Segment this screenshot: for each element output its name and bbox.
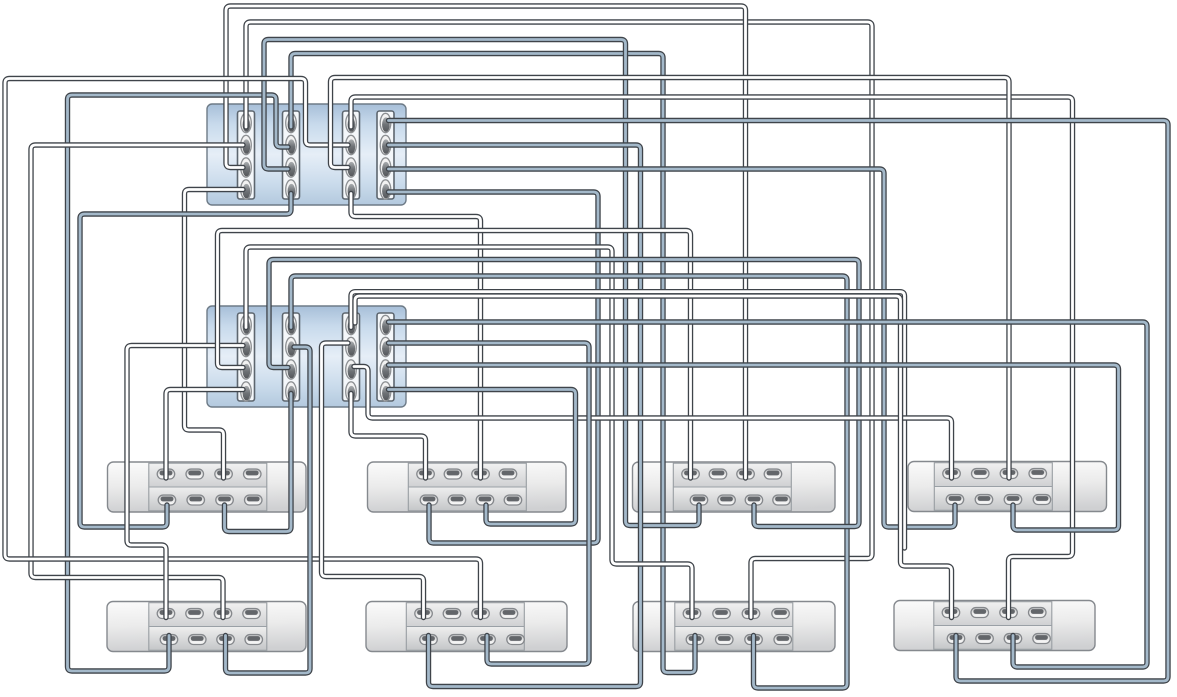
controller C2 HBA2 port 4 (286, 382, 297, 401)
disk shelf B2 IOM1 port 2 (449, 635, 467, 645)
controller C2 HBA3 port 1 (346, 315, 357, 334)
cable C1-s1p4 to A1-t3 (185, 190, 244, 479)
disk shelf B2 IOM1 port 3 (478, 635, 496, 645)
cable C1-s2p3 to A3-b1 (264, 40, 699, 526)
controller C2 HBA3 port 4 (346, 382, 357, 401)
disk shelf A2 chassis (368, 462, 567, 512)
disk shelf A1 IOM0 port 4 (244, 469, 262, 479)
disk shelf A3 IOM0 port 3 (737, 469, 755, 479)
disk shelf A4 IOM0 port 2 (972, 469, 990, 479)
controller C1 HBA2 port 4 (286, 180, 297, 199)
disk shelf B2 IOM0 port 1 (415, 609, 433, 619)
disk shelf B4 IOM0 port 1 (942, 608, 960, 618)
controller C1 HBA slot 4 (377, 111, 394, 199)
disk shelf B2 controller panel (406, 603, 524, 651)
controller C2 HBA4 port 3 (380, 360, 391, 379)
controller C1 HBA slot 2 (283, 111, 300, 199)
cable C1-s2p2 to B1-b1 (68, 95, 289, 671)
disk shelf B1 IOM0 port 2 (186, 609, 204, 619)
controller C1 HBA1 port 4 (241, 180, 252, 199)
disk shelf B4 controller panel (934, 602, 1052, 650)
disk shelf A2 IOM1 port 4 (504, 495, 522, 505)
controller C2 HBA4 port 4 (380, 382, 391, 401)
disk shelf B3 IOM1 port 1 (686, 635, 704, 645)
disk shelf A2 IOM0 port 4 (499, 469, 517, 479)
cable C1-s3p1 to B4-t3 (351, 97, 1073, 618)
disk shelf B1 IOM0 port 3 (214, 609, 232, 619)
controller C2 HBA1 port 1 (241, 315, 252, 334)
controller C1 HBA2 port 1 (286, 113, 297, 132)
disk shelf A2 IOM1 port 1 (420, 495, 438, 505)
cable C1-s1p3 to A3-t3 (226, 6, 746, 478)
cable C2-s3p1 riser to right drop (351, 292, 905, 548)
disk shelf A2 IOM0 port 1 (417, 469, 435, 479)
cable C2-s2p2 to B1-b3 (226, 347, 311, 673)
cable C1-s2p4 to A1-b1 (80, 194, 291, 528)
disk shelf B4 IOM1 port 2 (976, 634, 994, 644)
disk shelf A4 IOM0 port 1 (943, 469, 961, 479)
controller C2 HBA4 port 2 (380, 337, 391, 356)
disk shelf B1 IOM0 port 1 (157, 609, 175, 619)
disk shelf B2 IOM0 port 2 (443, 609, 461, 619)
controller C1 chassis (207, 104, 406, 205)
cable B4-t1 line (355, 296, 952, 618)
disk shelf A1 IOM1 port 3 (216, 495, 234, 505)
disk shelf A1 IOM0 port 2 (186, 469, 204, 479)
cable C1-s4p2 to B2-b1 (389, 145, 641, 687)
disk shelf A4 IOM1 port 1 (946, 495, 964, 505)
disk shelf B4 IOM0 port 4 (1029, 608, 1047, 618)
cable C1-s2p1 to B3-b1 (291, 54, 695, 673)
disk shelf B2 IOM0 port 3 (472, 609, 490, 619)
cable C1-s4p4 to A2-b1 (389, 192, 599, 543)
controller C1 HBA3 port 3 (346, 158, 357, 177)
disk shelf B4 IOM1 port 4 (1033, 634, 1051, 644)
disk shelf A2 IOM1 port 2 (448, 495, 466, 505)
disk shelf A4 controller panel (934, 463, 1052, 511)
disk shelf A3 IOM1 port 1 (690, 495, 708, 505)
disk shelf A3 IOM0 port 2 (709, 469, 727, 479)
disk shelf A3 controller panel (673, 463, 791, 511)
controller C2 HBA1 port 3 (241, 360, 252, 379)
disk shelf A1 IOM0 port 1 (157, 469, 175, 479)
cable C2-s1p1 to B3-t1 (246, 247, 692, 618)
disk shelf A1 IOM1 port 2 (187, 495, 205, 505)
controller C1 HBA1 port 1 (241, 113, 252, 132)
cable C1-s3p4 to A2-t3 (351, 194, 481, 479)
disk shelf A3 IOM1 port 4 (773, 495, 791, 505)
disk shelf B1 IOM0 port 4 (243, 609, 260, 619)
cable C2-s4p1 to B4-b3 (389, 322, 1148, 667)
cable C1-s4p1 to B4-b1 (389, 121, 1169, 682)
disk shelf B3 IOM0 port 1 (683, 609, 701, 619)
controller C2 HBA slot 1 (238, 313, 255, 401)
disk shelf A1 controller panel (149, 463, 267, 511)
disk shelf A2 IOM0 port 2 (444, 469, 462, 479)
cable C2-s2p4 to A1-b3 (225, 394, 292, 532)
disk shelf A3 IOM1 port 2 (718, 495, 736, 505)
controller C1 HBA4 port 4 (380, 180, 391, 199)
disk shelf A4 IOM1 port 2 (975, 495, 993, 505)
cable C2-s1p2 to B1-t1 (127, 346, 243, 618)
controller C1 HBA1 port 2 (241, 135, 252, 154)
disk shelf B4 IOM1 port 3 (1004, 634, 1022, 644)
disk shelf B4 IOM0 port 2 (971, 608, 989, 618)
controller C2 HBA2 port 2 (286, 337, 297, 356)
controller C2 HBA2 port 3 (286, 360, 297, 379)
disk shelf A2 IOM1 port 3 (476, 495, 494, 505)
disk shelf A3 IOM1 port 3 (745, 495, 763, 505)
disk shelf B2 IOM1 port 4 (507, 635, 525, 645)
disk shelf B2 IOM0 port 4 (500, 609, 518, 619)
cable C2-s4p4 to A2-b3 (389, 390, 576, 525)
disk shelf A3 chassis (633, 462, 836, 512)
disk shelf B3 IOM0 port 3 (742, 609, 760, 619)
controller C1 HBA slot 3 (343, 111, 360, 199)
disk shelf B3 IOM1 port 3 (745, 635, 763, 645)
controller C2 HBA slot 4 (377, 313, 394, 401)
cable C1-s3p3 to A4-t3 (331, 78, 1010, 479)
controller C1 HBA3 port 2 (346, 135, 357, 154)
cable C2-s2p3 to A3-b3 (269, 260, 859, 527)
controller C1 HBA4 port 3 (380, 158, 391, 177)
controller C2 HBA3 port 2 (346, 337, 357, 356)
controller C2 chassis (207, 306, 406, 407)
cable C1-s4p3 to A4-b1 (389, 169, 956, 527)
disk shelf A2 IOM0 port 3 (472, 469, 490, 479)
disk shelf B3 IOM1 port 4 (774, 635, 792, 645)
disk shelf A3 IOM0 port 4 (764, 469, 782, 479)
controller C2 HBA4 port 1 (380, 315, 391, 334)
cable C2-s2p1 to B3-b3 (291, 276, 847, 688)
disk shelf B3 controller panel (675, 603, 793, 651)
controller C1 HBA2 port 3 (286, 158, 297, 177)
cable C1-s1p1 to B3-t3 (246, 22, 872, 618)
disk shelf B3 IOM0 port 4 (772, 609, 790, 619)
cable C2-s3p3 to A4-t1 (354, 367, 952, 479)
controller C2 HBA2 port 1 (286, 315, 297, 334)
disk shelf B1 chassis (107, 602, 306, 652)
controller C2 HBA1 port 4 (241, 382, 252, 401)
disk shelf B1 IOM1 port 2 (189, 635, 207, 645)
disk shelf A4 IOM1 port 4 (1033, 495, 1051, 505)
cable C2-s4p3 to A4-b3 (389, 365, 1119, 530)
disk shelf B1 IOM1 port 1 (160, 635, 178, 645)
controller C1 HBA4 port 1 (380, 113, 391, 132)
cable C1-s1p2 to B1-t3 (31, 145, 243, 618)
disk shelf B1 controller panel (149, 603, 267, 651)
cable C2-s3p4 to A2-t1 (351, 394, 426, 479)
disk shelf A4 IOM0 port 4 (1029, 469, 1047, 479)
disk shelf A1 IOM1 port 4 (245, 495, 263, 505)
disk shelf A4 IOM1 port 3 (1004, 495, 1022, 505)
cable C2-s1p4 to A1-t1 (166, 390, 243, 479)
controller C1 HBA4 port 2 (380, 135, 391, 154)
cable C2-s3p2 to B2-t1 (322, 343, 424, 618)
disk shelf B4 IOM0 port 3 (1000, 608, 1018, 618)
disk shelf A4 chassis (908, 462, 1107, 512)
controller C1 HBA1 port 3 (241, 158, 252, 177)
controller C2 HBA1 port 2 (241, 337, 252, 356)
disk shelf B4 IOM1 port 1 (947, 634, 965, 644)
disk shelf B2 IOM1 port 1 (420, 635, 438, 645)
disk shelf B4 chassis (894, 601, 1095, 651)
controller C2 HBA slot 2 (283, 313, 300, 401)
controller C2 HBA3 port 3 (346, 360, 357, 379)
disk shelf A2 controller panel (408, 463, 526, 511)
disk shelf B3 chassis (633, 602, 835, 652)
controller C2 HBA slot 3 (343, 313, 360, 401)
controller C1 HBA3 port 1 (346, 113, 357, 132)
cable C1-s3p2 to B2-t3 (5, 79, 481, 618)
disk shelf B3 IOM1 port 2 (716, 635, 734, 645)
controller C1 HBA2 port 2 (286, 135, 297, 154)
disk shelf A1 IOM1 port 1 (158, 495, 176, 505)
cable C2-s4p2 to B2-b3 (389, 343, 590, 664)
controller C1 HBA3 port 4 (346, 180, 357, 199)
disk shelf A1 IOM0 port 3 (215, 469, 233, 479)
controller C1 HBA slot 1 (238, 111, 255, 199)
cable C2-s1p3 to A3-t1 (218, 231, 691, 479)
disk shelf B1 IOM1 port 4 (245, 635, 263, 645)
disk shelf B2 chassis (366, 602, 567, 652)
disk shelf B1 IOM1 port 3 (217, 635, 235, 645)
disk shelf B3 IOM0 port 2 (713, 609, 731, 619)
disk shelf A3 IOM0 port 1 (682, 469, 700, 479)
disk shelf A1 chassis (108, 462, 307, 512)
disk shelf A4 IOM0 port 3 (1000, 469, 1018, 479)
